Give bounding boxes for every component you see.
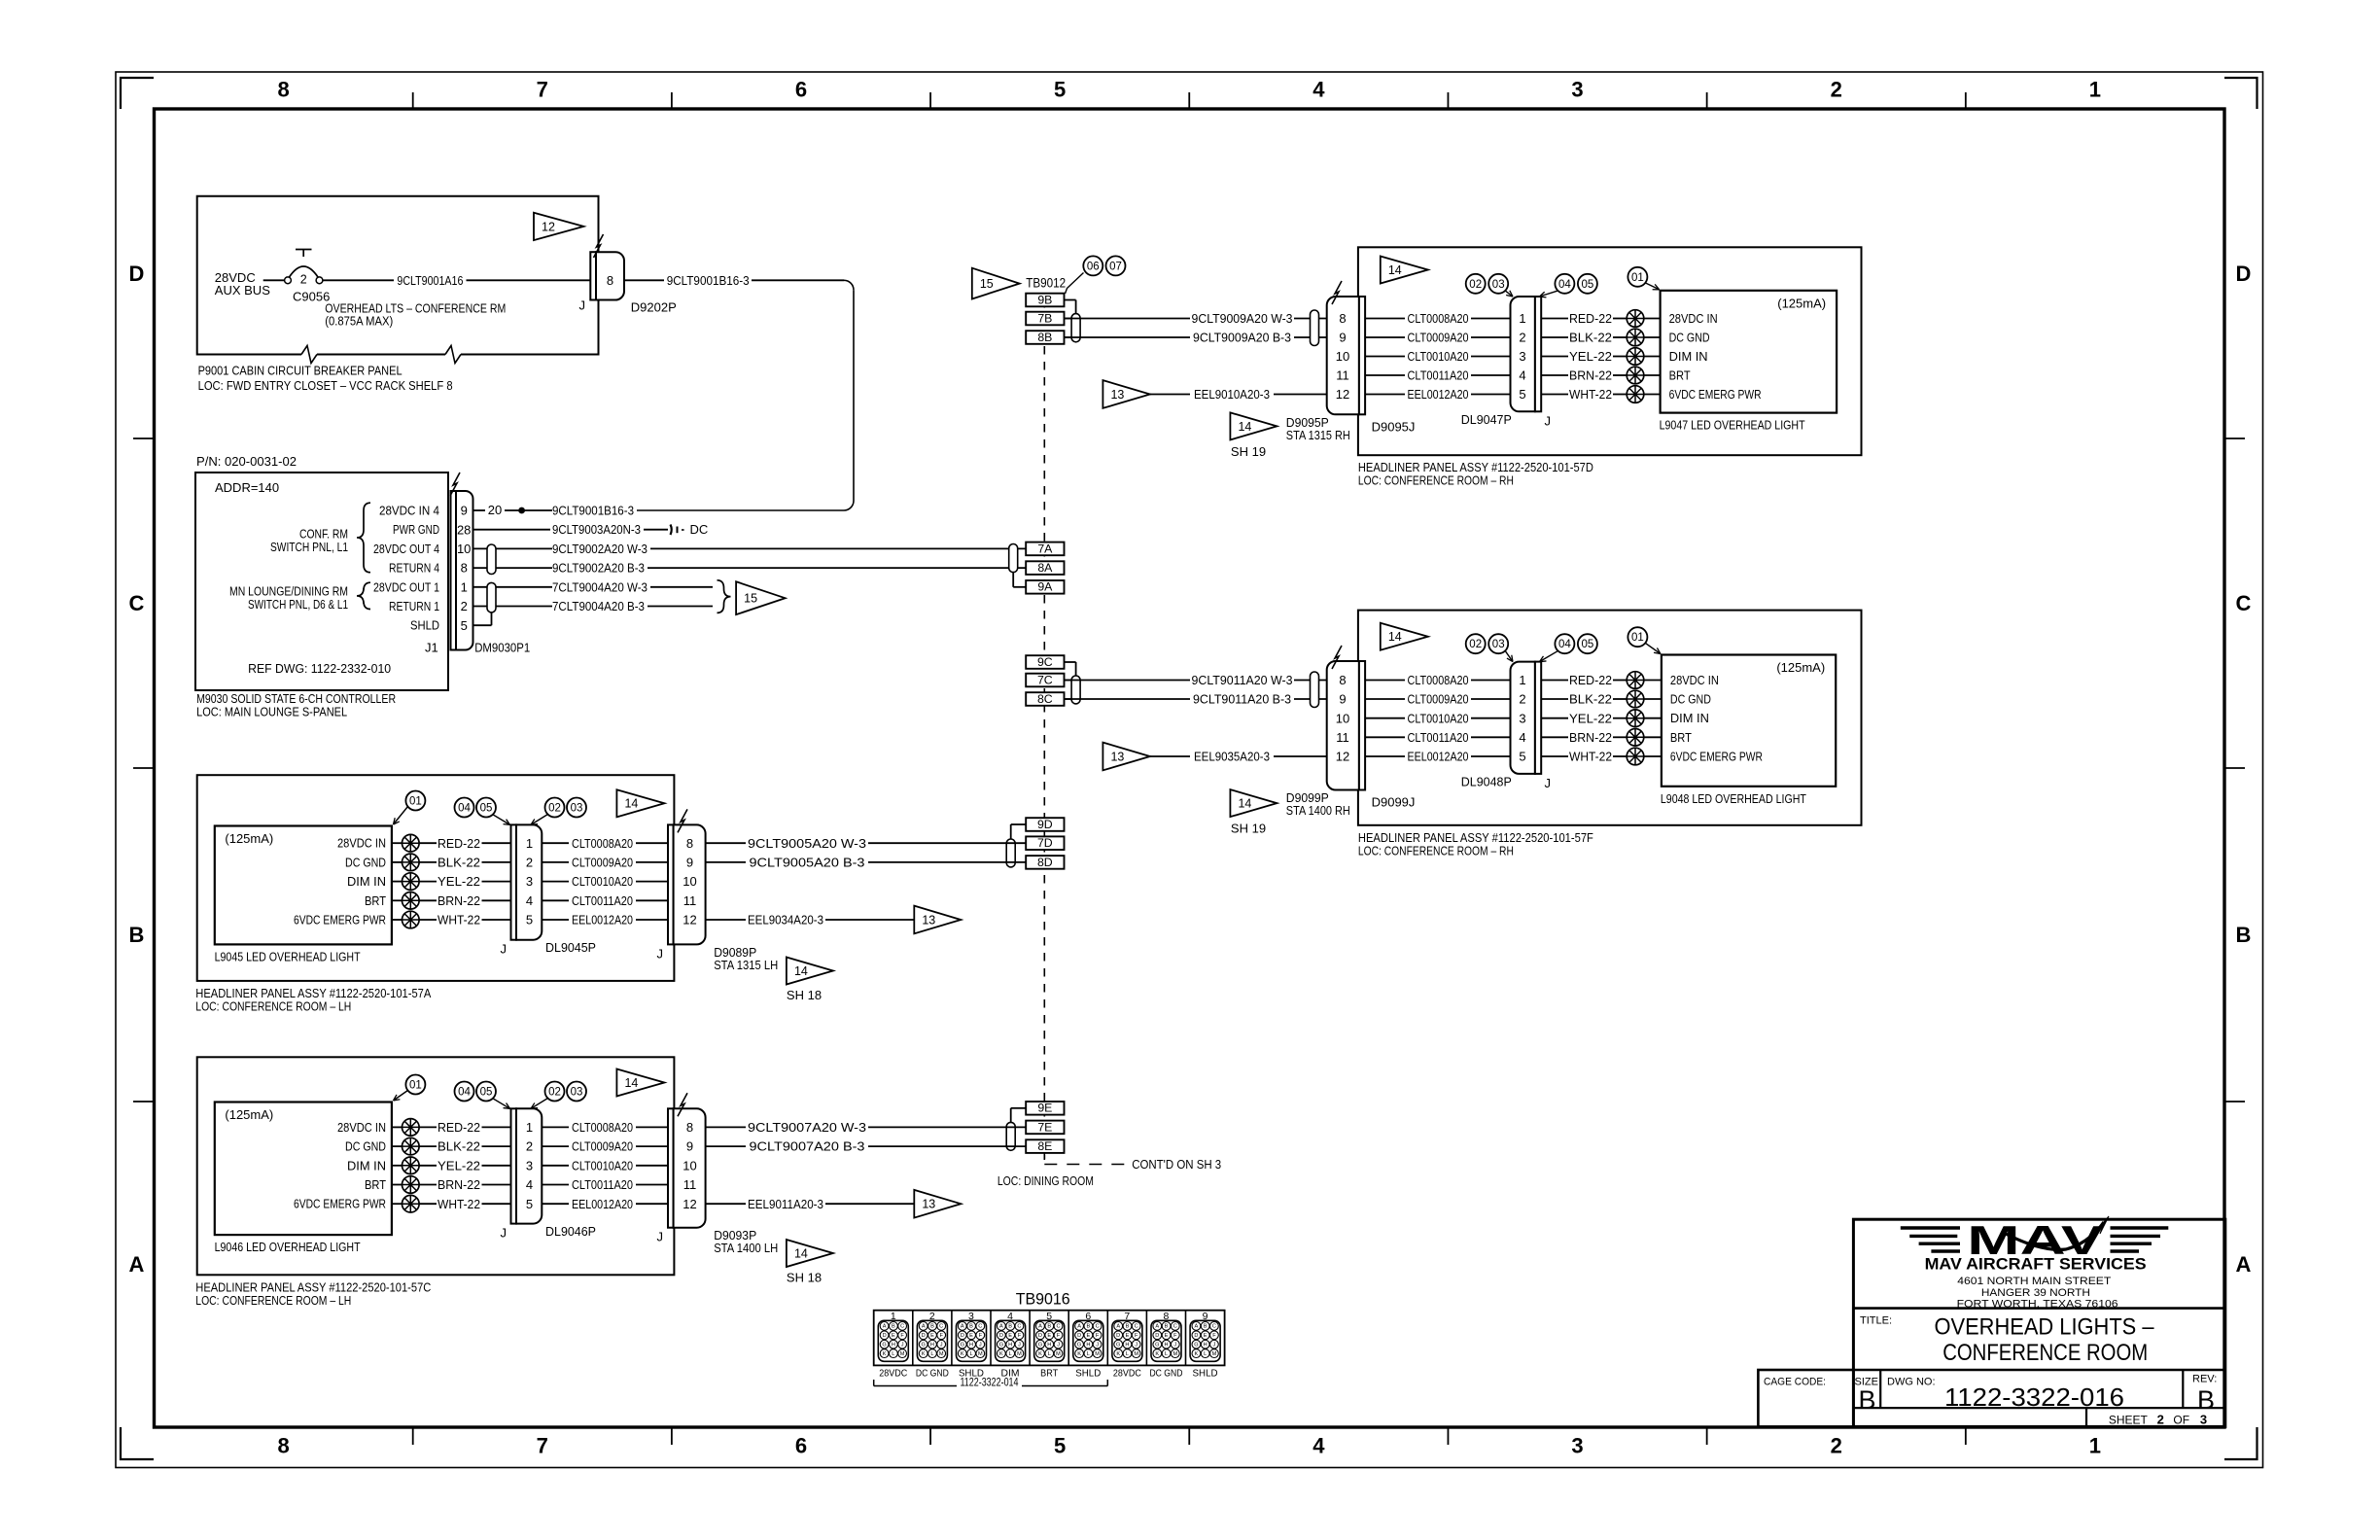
svg-text:01: 01: [409, 1080, 422, 1092]
svg-text:L: L: [1165, 1351, 1168, 1357]
flag 13 and wire EEL9010A20-3: [1102, 380, 1326, 408]
svg-text:03: 03: [1492, 279, 1505, 291]
wire CLT0010A20: [1365, 349, 1510, 364]
svg-text:2: 2: [1519, 692, 1525, 707]
svg-text:8: 8: [607, 273, 613, 288]
label headliner assy 1122-2520-101-57D: [1358, 460, 1593, 488]
headliner panel assembly 1122-2520-101-57A box: [197, 775, 675, 981]
svg-text:01: 01: [1631, 272, 1644, 284]
svg-text:4: 4: [1312, 1434, 1325, 1458]
svg-text:A: A: [883, 1324, 887, 1330]
shield capsule group E: [1006, 1122, 1015, 1150]
svg-text:WHT-22: WHT-22: [1569, 750, 1612, 764]
svg-text:SHLD: SHLD: [1193, 1369, 1218, 1380]
svg-text:03: 03: [1492, 639, 1505, 650]
lamp and wire WHT-22 L9047: [1541, 386, 1660, 403]
svg-text:LOC: DINING ROOM: LOC: DINING ROOM: [997, 1173, 1094, 1188]
terminal 9A: [1013, 571, 1064, 594]
svg-text:D9095J: D9095J: [1372, 419, 1416, 434]
label D9089P STA 1315 LH: [714, 945, 778, 972]
svg-text:YEL-22: YEL-22: [437, 874, 480, 889]
svg-text:RETURN 4: RETURN 4: [389, 561, 439, 576]
svg-text:EEL9010A20-3: EEL9010A20-3: [1194, 387, 1270, 402]
svg-text:D9099J: D9099J: [1372, 795, 1416, 810]
svg-text:G: G: [1116, 1342, 1120, 1347]
svg-text:YEL-22: YEL-22: [437, 1158, 480, 1172]
svg-text:9: 9: [1339, 692, 1346, 707]
svg-text:CLT0010A20: CLT0010A20: [572, 874, 633, 889]
svg-text:B: B: [1126, 1324, 1130, 1330]
svg-text:03: 03: [571, 1087, 583, 1099]
terminal 8A: [1026, 561, 1064, 575]
svg-text:2: 2: [526, 1139, 533, 1154]
terminal strip TB9012 dashed run: [1043, 299, 1045, 1159]
lamp signals L9048: [1670, 673, 1763, 764]
wire CLT0009A20: [1365, 331, 1510, 345]
svg-text:5: 5: [1519, 387, 1525, 402]
flag 13 and wire EEL9035A20-3: [1102, 743, 1326, 771]
svg-text:C: C: [1056, 1324, 1060, 1330]
wire 9CLT9007A20 W-3: [706, 1120, 1027, 1135]
lamp and wire BLK-22 L9047: [1541, 329, 1660, 346]
svg-text:3: 3: [1571, 78, 1583, 102]
svg-text:2: 2: [1519, 331, 1525, 345]
svg-text:D: D: [1155, 1333, 1159, 1339]
svg-text:J: J: [1057, 1342, 1060, 1347]
svg-text:11: 11: [1336, 730, 1349, 745]
svg-text:04: 04: [458, 803, 471, 815]
svg-text:J: J: [657, 1230, 664, 1244]
svg-text:BLK-22: BLK-22: [437, 855, 480, 869]
svg-text:BRT: BRT: [365, 893, 386, 908]
svg-text:H: H: [1165, 1342, 1169, 1347]
svg-text:J: J: [579, 298, 586, 313]
svg-text:13: 13: [1110, 750, 1124, 763]
svg-text:8: 8: [686, 836, 693, 851]
connector D9095P / jack: [1327, 281, 1416, 434]
flag 14 SH 19: [1230, 789, 1277, 836]
svg-text:3: 3: [1519, 711, 1525, 725]
lamp and wire RED-22 L9048: [1541, 672, 1662, 689]
svg-text:1122-3322-016: 1122-3322-016: [1944, 1384, 2124, 1412]
svg-text:J: J: [501, 942, 507, 957]
svg-text:A: A: [922, 1324, 926, 1330]
svg-text:(125mA): (125mA): [1776, 660, 1825, 675]
svg-text:6: 6: [795, 78, 807, 102]
shield capsule at connector: [1311, 310, 1319, 345]
svg-text:STA 1315 RH: STA 1315 RH: [1286, 428, 1350, 442]
svg-text:12: 12: [1336, 387, 1349, 402]
svg-text:H: H: [892, 1342, 895, 1347]
brace MN LOUNGE/DINING RM SWITCH PNL, D6 & L1: [229, 582, 370, 612]
wire CLT0010A20: [1365, 711, 1510, 725]
connector D9202P pin 8: [579, 234, 677, 315]
svg-text:C: C: [129, 591, 145, 615]
svg-text:1: 1: [461, 579, 468, 594]
svg-text:C: C: [1096, 1324, 1100, 1330]
row letters D C B A: [129, 262, 2252, 1277]
svg-text:K: K: [1077, 1351, 1081, 1357]
terminal 9D: [1011, 818, 1065, 839]
svg-text:EEL0012A20: EEL0012A20: [572, 1197, 633, 1211]
svg-text:L: L: [1126, 1351, 1129, 1357]
svg-text:F: F: [939, 1333, 943, 1339]
svg-text:H: H: [1008, 1342, 1012, 1347]
svg-text:3: 3: [1571, 1434, 1583, 1458]
svg-text:J: J: [940, 1342, 943, 1347]
shield capsule group D: [1006, 839, 1015, 867]
LED overhead light L9045 box: [215, 826, 392, 964]
lamp and wire BRN-22 L9048: [1541, 729, 1662, 747]
svg-text:C: C: [900, 1324, 904, 1330]
svg-text:J: J: [1018, 1342, 1021, 1347]
rev B: [2192, 1374, 2217, 1415]
svg-text:STA 1400 RH: STA 1400 RH: [1286, 803, 1350, 818]
svg-text:10: 10: [1336, 349, 1349, 364]
svg-text:11: 11: [683, 893, 697, 908]
svg-text:K: K: [883, 1351, 887, 1357]
svg-text:RETURN 1: RETURN 1: [389, 599, 439, 613]
svg-text:28: 28: [457, 522, 471, 537]
svg-text:BRT: BRT: [1670, 730, 1692, 745]
svg-text:A: A: [999, 1324, 1003, 1330]
wire EEL0012A20: [1365, 387, 1510, 402]
wire 9CLT9011A20 W-3: [1065, 673, 1327, 687]
svg-text:6VDC EMERG PWR: 6VDC EMERG PWR: [294, 1197, 386, 1211]
svg-text:4: 4: [1312, 78, 1325, 102]
svg-text:C: C: [939, 1324, 943, 1330]
lamp and wire YEL-22 L9048: [1541, 710, 1662, 727]
svg-text:SHEET: SHEET: [2109, 1413, 2149, 1426]
circuit breaker panel P9001 box: [197, 196, 599, 364]
flag 14 SH 18: [787, 958, 833, 1003]
svg-text:D: D: [1194, 1333, 1198, 1339]
lamp and wire BLK-22 L9048: [1541, 690, 1662, 708]
svg-text:A: A: [129, 1252, 145, 1277]
svg-text:CLT0009A20: CLT0009A20: [572, 1139, 633, 1154]
svg-text:9A: 9A: [1037, 580, 1053, 594]
svg-text:CLT0009A20: CLT0009A20: [572, 855, 633, 869]
svg-text:01: 01: [1631, 632, 1644, 644]
headliner panel assembly 1122-2520-101-57C box: [197, 1057, 675, 1275]
svg-text:2: 2: [1831, 78, 1842, 102]
svg-text:4: 4: [526, 893, 533, 908]
connector DL9047P: [1461, 297, 1551, 428]
svg-text:HANGER 39 NORTH: HANGER 39 NORTH: [1981, 1287, 2090, 1299]
flag 14 in panel: [1381, 623, 1428, 650]
controller M9030 pin function labels: [373, 504, 439, 633]
svg-text:2: 2: [2157, 1412, 2164, 1426]
svg-text:E: E: [1086, 1333, 1090, 1339]
svg-text:5: 5: [526, 913, 533, 927]
svg-text:YEL-22: YEL-22: [1569, 349, 1612, 364]
svg-text:DIM IN: DIM IN: [1670, 711, 1709, 725]
svg-text:STA 1315 LH: STA 1315 LH: [714, 958, 778, 972]
label headliner assy 1122-2520-101-57A: [195, 986, 431, 1014]
svg-text:SWITCH PNL, L1: SWITCH PNL, L1: [270, 540, 348, 554]
svg-text:J1: J1: [425, 641, 438, 655]
terminal 9B: [1026, 293, 1075, 313]
svg-text:LOC: CONFERENCE ROOM – RH: LOC: CONFERENCE ROOM – RH: [1358, 843, 1514, 857]
cage code box: [1764, 1377, 1826, 1388]
svg-text:7E: 7E: [1037, 1120, 1052, 1134]
svg-text:14: 14: [1238, 796, 1251, 810]
svg-text:CLT0010A20: CLT0010A20: [1408, 711, 1469, 725]
svg-text:20: 20: [488, 503, 502, 517]
svg-text:J: J: [1135, 1342, 1137, 1347]
wire CONT D ON SH 3: [1044, 1151, 1221, 1172]
svg-text:E: E: [1047, 1333, 1051, 1339]
wire CLT0010A20: [542, 1158, 668, 1172]
svg-text:MAV AIRCRAFT SERVICES: MAV AIRCRAFT SERVICES: [1925, 1256, 2147, 1274]
svg-text:11: 11: [683, 1177, 697, 1192]
terminal 8C: [1026, 692, 1075, 706]
svg-text:3: 3: [1519, 349, 1525, 364]
svg-text:28VDC IN: 28VDC IN: [337, 836, 386, 851]
svg-text:STA 1400 LH: STA 1400 LH: [714, 1241, 778, 1255]
brace to flag 15: [717, 580, 731, 613]
callouts 02 03 of DL9046P: [531, 1082, 586, 1109]
svg-text:04: 04: [458, 1087, 471, 1099]
svg-text:9: 9: [1339, 331, 1346, 345]
TB9016 module 3: [957, 1311, 987, 1361]
terminal 8B: [1026, 331, 1075, 344]
svg-text:28VDC: 28VDC: [879, 1369, 907, 1380]
svg-text:TB9016: TB9016: [1016, 1289, 1070, 1308]
connector D9093P / jack: [657, 1093, 706, 1243]
svg-text:CONT'D ON SH 3: CONT'D ON SH 3: [1132, 1157, 1221, 1172]
svg-text:7A: 7A: [1037, 542, 1053, 555]
wire 7CLT9004A20 W-3: [552, 579, 713, 594]
svg-text:RED-22: RED-22: [437, 1120, 480, 1135]
logo MAV AIRCRAFT SERVICES: [1925, 1256, 2147, 1311]
svg-text:6: 6: [795, 1434, 807, 1458]
svg-text:1: 1: [2089, 78, 2101, 102]
svg-text:F: F: [1135, 1333, 1138, 1339]
svg-text:EEL9011A20-3: EEL9011A20-3: [748, 1197, 823, 1211]
connector DM9030P1 J1: [425, 472, 530, 655]
svg-text:CLT0011A20: CLT0011A20: [1408, 368, 1469, 383]
svg-text:M: M: [939, 1351, 944, 1357]
svg-text:M: M: [900, 1351, 905, 1357]
svg-text:BLK-22: BLK-22: [1569, 331, 1612, 345]
svg-text:05: 05: [480, 1087, 493, 1099]
svg-text:K: K: [1038, 1351, 1042, 1357]
svg-text:F: F: [1018, 1333, 1022, 1339]
svg-text:PWR GND: PWR GND: [393, 522, 439, 537]
svg-text:B: B: [969, 1324, 973, 1330]
svg-text:DIM IN: DIM IN: [1669, 349, 1708, 364]
svg-text:K: K: [961, 1351, 964, 1357]
wire EEL9011A20-3 to flag 13: [706, 1190, 962, 1218]
title block frame: [1758, 1219, 2224, 1426]
svg-text:K: K: [1116, 1351, 1120, 1357]
svg-text:2: 2: [461, 599, 468, 613]
svg-text:WHT-22: WHT-22: [437, 913, 480, 927]
label D9095P STA 1315 RH: [1286, 415, 1350, 442]
svg-text:15: 15: [980, 277, 994, 291]
svg-text:7CLT9004A20 W-3: 7CLT9004A20 W-3: [552, 579, 647, 594]
svg-text:D: D: [1116, 1333, 1120, 1339]
svg-text:D: D: [129, 262, 145, 286]
svg-text:9CLT9009A20 W-3: 9CLT9009A20 W-3: [1192, 311, 1293, 326]
svg-text:H: H: [1204, 1342, 1207, 1347]
callouts 02 03 of DL9045P: [531, 798, 586, 825]
svg-text:OF: OF: [2173, 1413, 2189, 1426]
svg-text:CONFERENCE ROOM: CONFERENCE ROOM: [1942, 1340, 2148, 1366]
svg-text:CLT0008A20: CLT0008A20: [1408, 311, 1469, 326]
svg-text:P/N: 020-0031-02: P/N: 020-0031-02: [196, 454, 297, 469]
svg-text:1: 1: [2089, 1434, 2101, 1458]
wire CLT0011A20: [1365, 730, 1510, 745]
connector D9089P / jack: [657, 809, 706, 961]
svg-text:EEL0012A20: EEL0012A20: [1408, 750, 1469, 764]
svg-text:06: 06: [1087, 261, 1100, 272]
svg-text:DL9045P: DL9045P: [545, 940, 596, 955]
svg-text:E: E: [1165, 1333, 1169, 1339]
svg-text:DL9047P: DL9047P: [1461, 412, 1512, 427]
svg-text:K: K: [1195, 1351, 1199, 1357]
svg-text:CLT0010A20: CLT0010A20: [572, 1158, 633, 1172]
svg-text:DIM IN: DIM IN: [347, 1158, 386, 1172]
lamp and wire RED-22 L9046: [392, 1119, 511, 1137]
svg-text:DC GND: DC GND: [1669, 331, 1710, 345]
svg-text:F: F: [1096, 1333, 1100, 1339]
svg-text:L: L: [930, 1351, 933, 1357]
svg-text:2: 2: [1831, 1434, 1842, 1458]
svg-text:4601 NORTH MAIN STREET: 4601 NORTH MAIN STREET: [1957, 1276, 2111, 1287]
svg-text:TITLE:: TITLE:: [1860, 1315, 1892, 1327]
wire CLT0009A20: [542, 1139, 668, 1154]
svg-text:L: L: [969, 1351, 972, 1357]
svg-text:C: C: [1017, 1324, 1021, 1330]
svg-text:K: K: [999, 1351, 1003, 1357]
svg-text:L9048 LED OVERHEAD LIGHT: L9048 LED OVERHEAD LIGHT: [1661, 791, 1806, 806]
svg-text:8D: 8D: [1037, 856, 1053, 869]
lamp and wire BLK-22 L9046: [392, 1137, 511, 1155]
svg-text:C: C: [978, 1324, 982, 1330]
svg-text:G: G: [1077, 1342, 1081, 1347]
svg-text:REF DWG: 1122-2332-010: REF DWG: 1122-2332-010: [248, 661, 391, 676]
svg-text:J: J: [979, 1342, 982, 1347]
svg-text:LOC: CONFERENCE ROOM – LH: LOC: CONFERENCE ROOM – LH: [195, 998, 351, 1013]
shield capsule group C: [1071, 676, 1080, 704]
svg-text:CLT0008A20: CLT0008A20: [1408, 673, 1469, 687]
flag 14 SH 19: [1230, 412, 1277, 459]
label TB9012: [1026, 275, 1066, 290]
svg-text:WHT-22: WHT-22: [437, 1197, 480, 1211]
svg-text:02: 02: [1469, 279, 1482, 291]
ground DC: [671, 522, 709, 537]
svg-text:FORT WORTH, TEXAS 76106: FORT WORTH, TEXAS 76106: [1957, 1299, 2118, 1311]
svg-text:02: 02: [548, 803, 561, 815]
svg-text:A: A: [1038, 1324, 1042, 1330]
svg-text:E: E: [969, 1333, 973, 1339]
headliner panel assembly 1122-2520-101-57D box: [1358, 247, 1862, 455]
size B: [1855, 1377, 1878, 1415]
lamp and wire BLK-22 L9045: [392, 854, 511, 871]
svg-text:10: 10: [682, 874, 696, 889]
svg-text:DC GND: DC GND: [916, 1369, 949, 1380]
flag 14 in panel: [616, 789, 664, 817]
svg-text:9: 9: [461, 504, 468, 518]
svg-text:BRT: BRT: [1669, 368, 1691, 383]
svg-text:8: 8: [277, 1434, 289, 1458]
svg-text:G: G: [1155, 1342, 1159, 1347]
callouts 04 05 of DL9046P: [455, 1082, 510, 1109]
svg-text:SH 18: SH 18: [787, 1271, 822, 1285]
label LOC: DINING ROOM: [997, 1173, 1094, 1188]
TB9016 module 7: [1112, 1311, 1142, 1361]
wire 9CLT9001A16: [323, 273, 596, 288]
wire CLT0008A20: [1365, 673, 1510, 687]
svg-text:7: 7: [537, 78, 548, 102]
svg-text:8: 8: [1339, 673, 1346, 687]
svg-text:01: 01: [409, 796, 422, 808]
svg-text:F: F: [1212, 1333, 1216, 1339]
svg-text:9D: 9D: [1037, 818, 1053, 831]
svg-text:14: 14: [1388, 263, 1402, 277]
svg-text:28VDC IN: 28VDC IN: [1669, 311, 1718, 326]
wire 9CLT9003A20N-3 pin 28: [473, 522, 669, 537]
svg-text:ADDR=140: ADDR=140: [215, 480, 279, 495]
wire 9CLT9009A20 B-3: [1065, 331, 1327, 345]
svg-text:9CLT9003A20N-3: 9CLT9003A20N-3: [552, 522, 641, 537]
svg-text:H: H: [1125, 1342, 1129, 1347]
LED overhead light L9047 box: [1660, 291, 1837, 433]
svg-text:04: 04: [1558, 639, 1571, 650]
terminal block TB9016: [874, 1289, 1225, 1365]
svg-text:J: J: [901, 1342, 904, 1347]
svg-text:WHT-22: WHT-22: [1569, 387, 1612, 402]
terminal 7C: [1026, 673, 1075, 686]
lamp and wire RED-22 L9045: [392, 834, 511, 852]
svg-text:G: G: [999, 1342, 1003, 1347]
svg-text:CLT0010A20: CLT0010A20: [1408, 349, 1469, 364]
flag 12: [534, 213, 583, 240]
svg-text:9CLT9011A20 W-3: 9CLT9011A20 W-3: [1192, 673, 1293, 687]
svg-text:H: H: [930, 1342, 934, 1347]
svg-text:B: B: [930, 1324, 934, 1330]
wire EEL0012A20: [1365, 750, 1510, 764]
svg-text:K: K: [1155, 1351, 1159, 1357]
svg-text:9CLT9002A20 B-3: 9CLT9002A20 B-3: [552, 561, 645, 576]
svg-text:9: 9: [686, 855, 693, 869]
svg-text:(125mA): (125mA): [225, 831, 273, 846]
wire 9CLT9007A20 B-3: [706, 1139, 1027, 1154]
connector DL9046P: [501, 1108, 597, 1240]
svg-text:L: L: [1087, 1351, 1090, 1357]
svg-text:1: 1: [526, 836, 533, 851]
svg-text:G: G: [882, 1342, 886, 1347]
svg-text:L: L: [1009, 1351, 1012, 1357]
logo MAV: [1901, 1216, 2169, 1263]
svg-text:E: E: [892, 1333, 895, 1339]
svg-text:J: J: [657, 946, 664, 961]
svg-text:M: M: [978, 1351, 983, 1357]
svg-text:LOC: CONFERENCE ROOM – RH: LOC: CONFERENCE ROOM – RH: [1358, 473, 1514, 488]
svg-text:BRN-22: BRN-22: [437, 1177, 480, 1192]
svg-text:4: 4: [1519, 730, 1525, 745]
svg-text:1122-3322-014: 1122-3322-014: [961, 1378, 1019, 1389]
svg-text:L: L: [1204, 1351, 1207, 1357]
svg-text:4: 4: [526, 1177, 533, 1192]
svg-text:EEL0012A20: EEL0012A20: [572, 913, 633, 927]
svg-text:A: A: [1116, 1324, 1120, 1330]
TB9016 harness 1122-3322-014 bracket: [874, 1378, 1108, 1389]
label M9030 SOLID STATE 6-CH CONTROLLER: [196, 691, 396, 719]
flag 14 in panel: [616, 1069, 664, 1097]
